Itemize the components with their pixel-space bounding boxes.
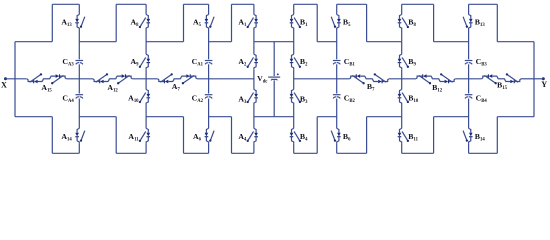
wire bottom rail segment 5 bbox=[294, 152, 318, 154]
svg-text:B5: B5 bbox=[343, 17, 351, 28]
switch pair B7 bbox=[350, 73, 389, 84]
label B15 bbox=[497, 80, 508, 91]
capacitor CA2 bbox=[205, 95, 213, 99]
wire rail B1-B4 vertical bbox=[293, 4, 295, 153]
wire bottom riser 3 bbox=[183, 117, 185, 154]
switch A1 bbox=[247, 15, 258, 30]
svg-text:CB3: CB3 bbox=[476, 57, 488, 68]
wire top riser 3 bbox=[183, 4, 185, 41]
svg-text:A13: A13 bbox=[61, 17, 72, 28]
svg-text:B9: B9 bbox=[408, 57, 416, 68]
svg-text:A10: A10 bbox=[128, 93, 139, 104]
label A1 bbox=[238, 17, 247, 28]
wire H-bridge top bar bbox=[254, 41, 294, 43]
switch B6 bbox=[331, 128, 341, 143]
switch A9 bbox=[139, 54, 150, 69]
label A9 bbox=[131, 57, 140, 68]
label A3 bbox=[238, 95, 247, 106]
wire upper link segment 8 bbox=[497, 41, 534, 43]
label B11 bbox=[408, 132, 418, 143]
wire lower link segment 8 bbox=[497, 116, 534, 118]
capacitor CB3 bbox=[465, 61, 473, 65]
wire top rail segment 7 bbox=[402, 3, 434, 5]
svg-text:A12: A12 bbox=[107, 83, 118, 94]
capacitor CB4 bbox=[465, 95, 473, 99]
wire upper link segment 1 bbox=[15, 41, 52, 43]
label A4 bbox=[238, 132, 247, 143]
svg-text:A3: A3 bbox=[238, 95, 247, 106]
svg-text:B6: B6 bbox=[343, 132, 351, 143]
svg-text:CA2: CA2 bbox=[192, 94, 204, 105]
label A7 bbox=[172, 82, 181, 93]
node X label bbox=[1, 80, 7, 89]
label B3 bbox=[300, 95, 308, 106]
label A8 bbox=[131, 17, 140, 28]
wire lower link segment 2 bbox=[79, 116, 116, 118]
label B14 bbox=[475, 132, 486, 143]
switch B3 bbox=[290, 90, 301, 105]
svg-text:CB4: CB4 bbox=[476, 94, 488, 105]
wire top rail segment 8 bbox=[469, 3, 498, 5]
wire branch CB1-CB2 vertical bbox=[336, 4, 338, 153]
capacitor CA3 bbox=[76, 61, 84, 65]
wire bottom rail segment 8 bbox=[469, 152, 498, 154]
svg-text:A5: A5 bbox=[193, 17, 202, 28]
label B1 bbox=[300, 17, 308, 28]
wire lower link segment 1 bbox=[15, 116, 52, 118]
wire bottom rail segment 6 bbox=[337, 152, 367, 154]
wire bottom rail segment 4 bbox=[232, 152, 254, 154]
svg-text:A11: A11 bbox=[128, 132, 139, 143]
node Y label bbox=[541, 80, 547, 89]
wire rail A1-A4 vertical bbox=[253, 4, 255, 153]
wire top rail segment 3 bbox=[184, 3, 209, 5]
wire top riser 5 bbox=[316, 4, 318, 41]
label CA2 bbox=[192, 94, 204, 105]
switch pair A15 bbox=[27, 73, 66, 84]
label B5 bbox=[343, 17, 351, 28]
label B13 bbox=[475, 17, 486, 28]
svg-text:A14: A14 bbox=[61, 132, 72, 143]
label CB1 bbox=[344, 57, 356, 68]
label B6 bbox=[343, 132, 351, 143]
svg-text:CB1: CB1 bbox=[344, 57, 356, 68]
wire bottom riser 5 bbox=[316, 117, 318, 154]
label A14 bbox=[61, 132, 72, 143]
switch A6 bbox=[205, 128, 215, 143]
label CB3 bbox=[476, 57, 488, 68]
wire top rail segment 6 bbox=[337, 3, 367, 5]
wire top riser 7 bbox=[433, 4, 435, 41]
label B2 bbox=[300, 57, 308, 68]
wire output line right 0 bbox=[294, 78, 350, 80]
wire bottom riser 6 bbox=[366, 117, 368, 154]
wire branch CA3-CA4 vertical bbox=[78, 4, 80, 153]
capacitor CA1 bbox=[205, 61, 213, 65]
svg-text:B3: B3 bbox=[300, 95, 308, 106]
switch A10 bbox=[139, 90, 150, 105]
label A5 bbox=[193, 17, 202, 28]
label A12 bbox=[107, 83, 118, 94]
label B10 bbox=[408, 94, 419, 105]
switch B2 bbox=[290, 54, 301, 69]
label CA4 bbox=[62, 94, 74, 105]
capacitor CB2 bbox=[333, 95, 341, 99]
svg-text:X: X bbox=[1, 80, 7, 89]
svg-text:B1: B1 bbox=[300, 17, 308, 28]
switch A11 bbox=[139, 128, 150, 143]
wire lower link segment 5 bbox=[317, 116, 337, 118]
svg-text:B12: B12 bbox=[432, 83, 443, 94]
wire upper link segment 4 bbox=[209, 41, 232, 43]
svg-text:B2: B2 bbox=[300, 57, 308, 68]
wire bottom rail segment 1 bbox=[52, 152, 79, 154]
wire upper link segment 5 bbox=[317, 41, 337, 43]
switch A5 bbox=[205, 15, 215, 30]
svg-text:B7: B7 bbox=[367, 82, 375, 93]
switch B11 bbox=[398, 128, 409, 143]
label A10 bbox=[128, 93, 139, 104]
wire lower link segment 4 bbox=[209, 116, 232, 118]
svg-text:B14: B14 bbox=[475, 132, 486, 143]
wire branch B8-B11 vertical bbox=[401, 4, 403, 153]
wire upper link segment 3 bbox=[146, 41, 183, 43]
wire lower link segment 7 bbox=[434, 116, 469, 118]
svg-text:A9: A9 bbox=[131, 57, 140, 68]
wire output line right 1 bbox=[389, 78, 416, 80]
node Y terminal bbox=[534, 77, 545, 80]
svg-text:CA1: CA1 bbox=[192, 57, 204, 68]
label B12 bbox=[432, 83, 443, 94]
label A2 bbox=[238, 57, 247, 68]
svg-text:A4: A4 bbox=[238, 132, 247, 143]
switch pair A12 bbox=[93, 73, 132, 84]
switch pair B12 bbox=[416, 73, 455, 84]
label B7 bbox=[367, 82, 375, 93]
svg-text:CA4: CA4 bbox=[62, 94, 74, 105]
wire top rail segment 2 bbox=[116, 3, 146, 5]
switch B8 bbox=[398, 15, 409, 30]
label Vdc bbox=[257, 74, 267, 85]
wire bottom rail segment 2 bbox=[116, 152, 146, 154]
wire bottom riser 2 bbox=[115, 117, 117, 154]
switch A3 bbox=[247, 90, 258, 105]
label A15 bbox=[41, 83, 52, 94]
wire output line left 3 bbox=[197, 78, 254, 80]
wire branch CA1-CA2 vertical bbox=[208, 4, 210, 153]
label A13 bbox=[61, 17, 72, 28]
svg-text:Vdc: Vdc bbox=[257, 74, 267, 85]
switch pair B15 bbox=[482, 73, 521, 84]
wire bottom rail segment 7 bbox=[402, 152, 434, 154]
svg-text:B8: B8 bbox=[408, 17, 416, 28]
label B8 bbox=[408, 17, 416, 28]
svg-text:CB2: CB2 bbox=[344, 94, 356, 105]
label CA3 bbox=[62, 57, 74, 68]
wire output line right 2 bbox=[455, 78, 482, 80]
wire lower link segment 3 bbox=[146, 116, 183, 118]
node X terminal bbox=[4, 77, 27, 80]
wire branch A8-A11 vertical bbox=[145, 4, 147, 153]
wire top riser 4 bbox=[231, 4, 233, 41]
switch B10 bbox=[398, 90, 409, 105]
wire bottom riser 7 bbox=[433, 117, 435, 154]
switch A8 bbox=[139, 15, 150, 30]
switch A4 bbox=[247, 128, 258, 143]
wire output line right 3 bbox=[521, 78, 534, 80]
wire left edge bbox=[14, 42, 16, 117]
svg-text:A15: A15 bbox=[41, 83, 52, 94]
svg-text:A7: A7 bbox=[172, 82, 181, 93]
svg-text:CA3: CA3 bbox=[62, 57, 74, 68]
switch B4 bbox=[290, 128, 301, 143]
switch B5 bbox=[331, 15, 341, 30]
wire top rail segment 5 bbox=[294, 3, 318, 5]
label A11 bbox=[128, 132, 139, 143]
wire Vdc branch vertical bbox=[273, 42, 275, 117]
wire top rail segment 4 bbox=[232, 3, 254, 5]
label A6 bbox=[193, 132, 202, 143]
source Vdc bbox=[268, 73, 280, 80]
switch B1 bbox=[290, 15, 301, 30]
svg-text:Y: Y bbox=[541, 80, 547, 89]
wire bottom riser 4 bbox=[231, 117, 233, 154]
label CA1 bbox=[192, 57, 204, 68]
switch A14 bbox=[75, 128, 85, 143]
label B9 bbox=[408, 57, 416, 68]
svg-text:A8: A8 bbox=[131, 17, 140, 28]
capacitor CB1 bbox=[333, 61, 341, 65]
switch A2 bbox=[247, 54, 258, 69]
wire bottom riser 8 bbox=[496, 117, 498, 154]
wire branch CB3-CB4 vertical bbox=[468, 4, 470, 153]
wire top rail segment 1 bbox=[52, 3, 79, 5]
wire bottom riser 1 bbox=[51, 117, 53, 154]
wire lower link segment 6 bbox=[367, 116, 402, 118]
capacitor CA4 bbox=[76, 95, 84, 99]
svg-text:A1: A1 bbox=[238, 17, 247, 28]
wire bottom rail segment 3 bbox=[184, 152, 209, 154]
svg-text:B4: B4 bbox=[300, 132, 308, 143]
wire upper link segment 7 bbox=[434, 41, 469, 43]
svg-text:A2: A2 bbox=[238, 57, 247, 68]
switch B9 bbox=[398, 54, 409, 69]
wire right edge bbox=[533, 42, 535, 117]
svg-text:B11: B11 bbox=[408, 132, 418, 143]
svg-text:A6: A6 bbox=[193, 132, 202, 143]
switch pair A7 bbox=[158, 73, 197, 84]
wire top riser 6 bbox=[366, 4, 368, 41]
label B4 bbox=[300, 132, 308, 143]
wire top riser 1 bbox=[51, 4, 53, 41]
wire top riser 8 bbox=[496, 4, 498, 41]
wire upper link segment 6 bbox=[367, 41, 402, 43]
wire upper link segment 2 bbox=[79, 41, 116, 43]
wire output line left 2 bbox=[132, 78, 158, 80]
label CB2 bbox=[344, 94, 356, 105]
svg-text:B10: B10 bbox=[408, 94, 419, 105]
switch B14 bbox=[463, 128, 473, 143]
svg-text:B13: B13 bbox=[475, 17, 486, 28]
switch B13 bbox=[463, 15, 473, 30]
wire top riser 2 bbox=[115, 4, 117, 41]
wire H-bridge bottom bar bbox=[254, 116, 294, 118]
wire output line left 1 bbox=[66, 78, 93, 80]
label CB4 bbox=[476, 94, 488, 105]
switch A13 bbox=[75, 15, 85, 30]
